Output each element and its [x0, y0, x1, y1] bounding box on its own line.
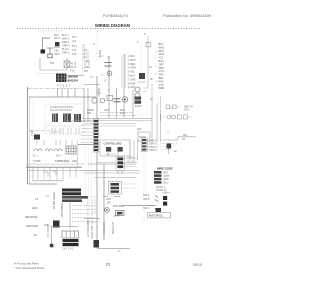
run winding ladder — [70, 202, 95, 228]
compressor M1 — [34, 140, 76, 154]
run capacitor C1 — [109, 88, 133, 118]
sensor cluster — [137, 128, 150, 141]
compressor relay block (dark) — [52, 189, 88, 218]
right bottom switch rows — [122, 194, 171, 222]
svg-text:05/10: 05/10 — [193, 263, 202, 267]
legend block — [144, 154, 173, 196]
thermostat TH1 — [96, 157, 138, 175]
fz lamp L2 — [105, 198, 125, 253]
damper motor DM1 — [167, 138, 186, 154]
defrost heater H1 — [161, 114, 197, 140]
water tank heater — [94, 240, 131, 248]
dispenser solenoid K2 — [84, 54, 125, 92]
svg-text:21: 21 — [106, 262, 111, 267]
harness connector P4 — [137, 66, 153, 82]
freezer harness labels — [84, 43, 101, 59]
wire list column right of center — [128, 55, 136, 89]
junction box — [38, 58, 84, 76]
auger motor leads (mid columns) — [84, 28, 97, 60]
lamp circuit verticals — [84, 196, 114, 239]
svg-text:* Non-Illustrated Parts: * Non-Illustrated Parts — [14, 266, 45, 270]
defrost heater bus right — [80, 146, 140, 248]
wire labels column A — [54, 33, 60, 56]
main power bus L1 — [26, 163, 84, 165]
component labels row — [87, 109, 126, 115]
dispenser assembly dotted box — [45, 104, 84, 134]
cabinet enclosure left wall — [28, 87, 96, 184]
wire bus pair — [66, 119, 152, 121]
lamp L1 — [84, 88, 113, 122]
neutral bus N — [28, 170, 97, 172]
ice maker IM1 — [103, 182, 138, 197]
right wire list column — [159, 42, 165, 90]
terminal board TB1 (dark band) — [56, 74, 93, 88]
door switch S2 — [30, 131, 50, 140]
feed line to compressor box — [78, 144, 97, 146]
TB1 lead wires — [58, 88, 76, 97]
component labels under motors — [33, 156, 78, 164]
door harness dotted wire — [82, 44, 84, 76]
connector grid J5 — [62, 231, 79, 251]
power cord plug P1 — [38, 31, 64, 58]
branch drops below bus — [28, 168, 76, 199]
fill tube heater H2 — [137, 32, 150, 88]
condenser compartment box edge — [77, 141, 79, 167]
dotted rule under header — [17, 27, 200, 29]
terminal cluster T2 (dark) — [44, 221, 78, 249]
freezer harness verticals — [150, 84, 161, 142]
wire labels column B — [62, 34, 77, 56]
thermistor block list — [141, 138, 178, 152]
evaporator fan EF1 — [135, 87, 149, 108]
trunk wire to harness connector — [96, 76, 98, 119]
left net labels — [25, 197, 49, 238]
main harness connector J1 (dark strip) — [81, 119, 99, 152]
water valve WV1 — [84, 61, 90, 73]
defrost thermostat DT1 — [166, 105, 193, 112]
control board CB1 — [84, 113, 138, 161]
